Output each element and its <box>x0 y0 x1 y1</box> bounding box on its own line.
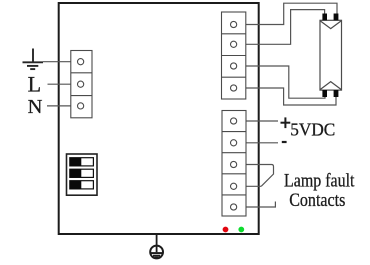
lamp LA1 filament bottom <box>320 82 341 90</box>
wire PE-TB1.1 <box>43 61 78 63</box>
lamp LA1 pin 3 <box>322 90 327 97</box>
terminal block TB2 <box>222 12 246 99</box>
wire TB3.3 lead <box>237 165 274 187</box>
wire TB3.4 lead <box>237 185 261 187</box>
wire TB3.1 plus <box>237 120 278 122</box>
label minus <box>282 141 287 143</box>
wire N-TB1.3 <box>47 105 78 107</box>
wire TB2.2-lamp pin top left <box>237 10 325 45</box>
lamp LA1 filament top <box>320 21 341 29</box>
DIP switch S1 <box>67 154 98 195</box>
svg-text:Contacts: Contacts <box>289 190 345 211</box>
lamp LA1 pin 4 <box>334 90 339 97</box>
lamp LA1 pin 1 <box>322 14 327 21</box>
wire TB2.1-lamp pin top right <box>237 3 337 24</box>
svg-text:Lamp fault: Lamp fault <box>284 170 355 191</box>
terminal block TB3 <box>222 111 246 217</box>
wire TB3.5 lead <box>237 202 275 208</box>
wire TB3.2 minus <box>237 142 278 144</box>
terminal block TB1 <box>71 51 92 118</box>
enclosure box U1 <box>59 3 259 234</box>
wire L-TB1.2 <box>48 83 79 85</box>
earth terminal E1 <box>150 235 163 258</box>
svg-text:5VDC: 5VDC <box>290 120 335 140</box>
wire TB2.3-lamp pin bottom left <box>237 66 325 98</box>
label plus <box>281 117 291 128</box>
lamp LA1 tube <box>320 20 342 90</box>
ground PE <box>23 49 44 70</box>
LED D2 green <box>238 227 244 233</box>
wire TB2.4-lamp pin bottom right <box>237 88 336 105</box>
svg-text:L: L <box>28 71 41 96</box>
LED D1 red <box>223 227 229 233</box>
lamp LA1 pin 2 <box>334 14 339 21</box>
svg-text:N: N <box>28 96 43 118</box>
